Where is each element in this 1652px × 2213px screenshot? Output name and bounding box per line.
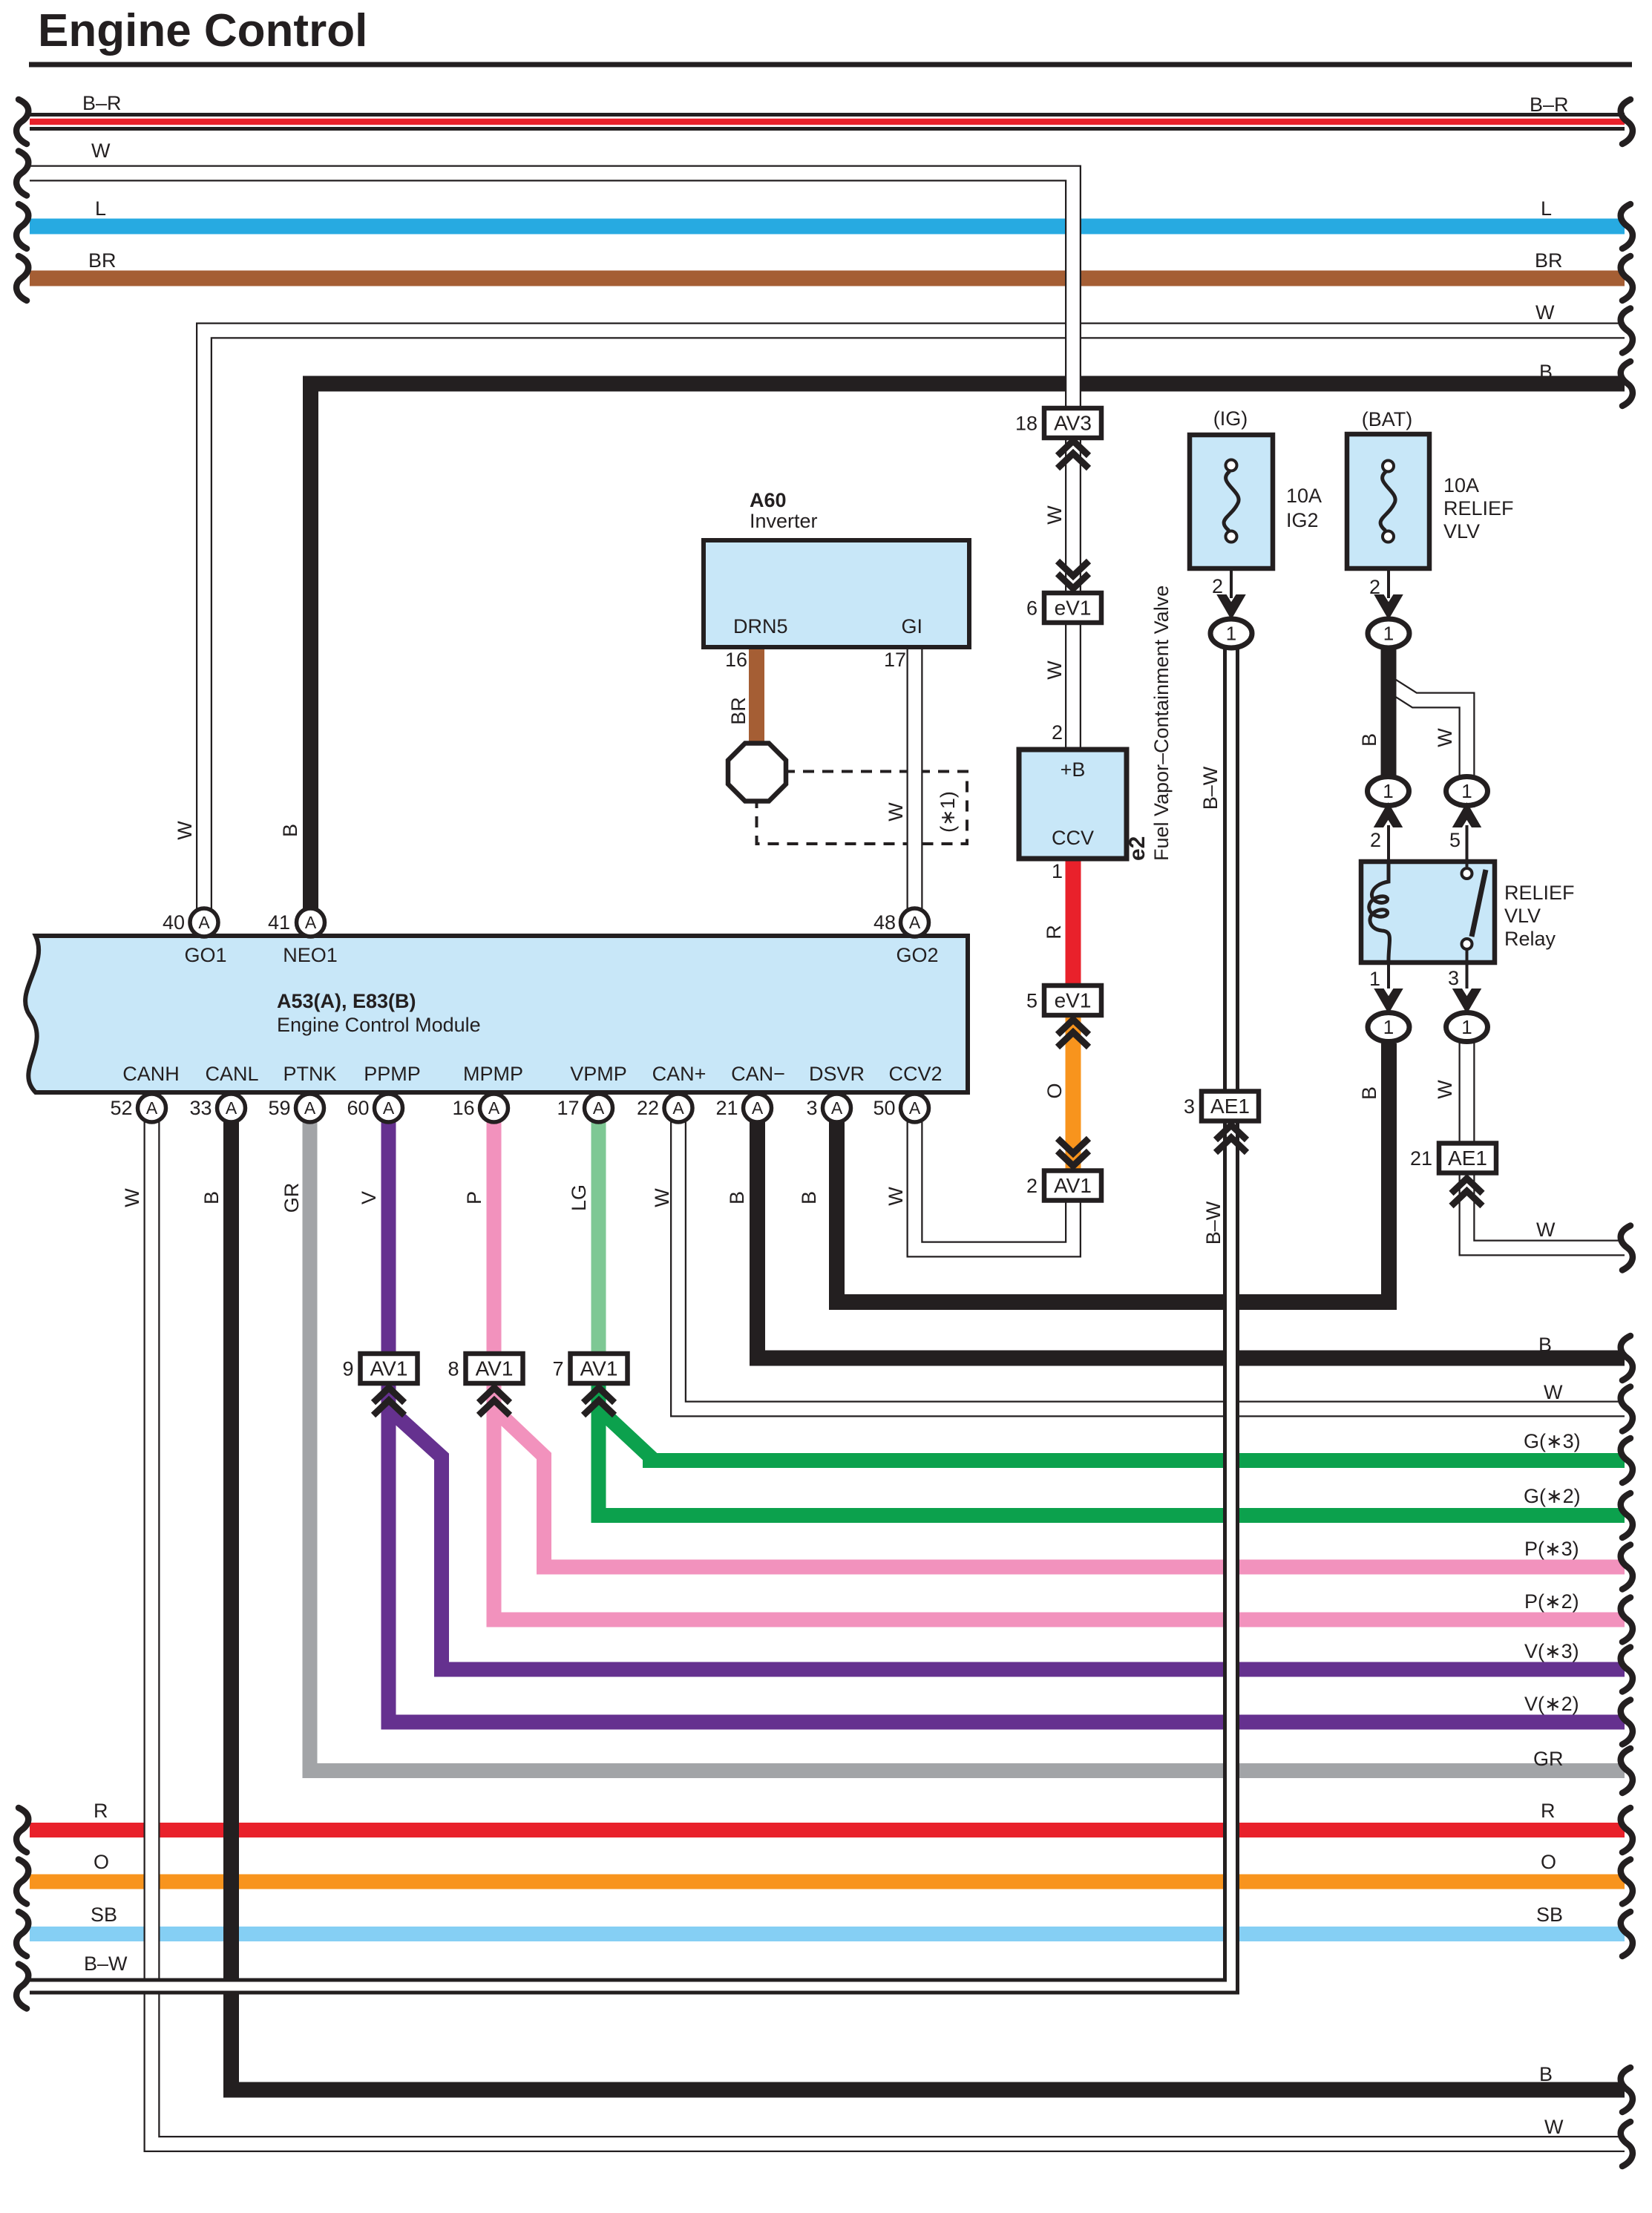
svg-text:8: 8: [448, 1358, 459, 1380]
svg-text:A: A: [909, 913, 921, 932]
svg-text:B–R: B–R: [82, 92, 122, 114]
svg-text:(∗1): (∗1): [937, 791, 959, 833]
terminal arrow fuse RELIEF VLV pin 2: [1375, 595, 1402, 618]
splice 1 on W wire above relay: [1446, 777, 1488, 806]
svg-text:16: 16: [452, 1097, 474, 1119]
break R left: [16, 1808, 28, 1852]
ECM pin 59 connector A: [296, 1094, 324, 1122]
svg-text:B: B: [726, 1191, 748, 1204]
svg-text:GI: GI: [901, 615, 922, 637]
svg-text:VLV: VLV: [1504, 905, 1541, 927]
svg-text:W: W: [174, 821, 196, 840]
svg-text:48: 48: [873, 911, 896, 934]
svg-text:V(∗2): V(∗2): [1524, 1693, 1579, 1715]
break O left: [16, 1860, 28, 1904]
wire B-W fuse IG to connector AE1 3 to bottom left edge: [30, 644, 1231, 1987]
svg-text:B: B: [279, 824, 301, 837]
connector eV1 pin 5: [1026, 986, 1101, 1015]
ECM box A53(A) E83(B) Engine Control Module: [25, 936, 968, 1092]
svg-text:AV1: AV1: [1054, 1174, 1092, 1197]
break V2 right: [1621, 1700, 1633, 1745]
svg-text:G(∗2): G(∗2): [1524, 1485, 1581, 1507]
svg-text:B: B: [798, 1191, 820, 1204]
pigtail relay pin 3: [1466, 960, 1469, 989]
svg-text:W: W: [1434, 728, 1456, 747]
fuse box BAT: [1347, 434, 1429, 568]
inline connector chevrons above AV1 2: [1058, 1138, 1089, 1166]
svg-text:50: 50: [873, 1097, 895, 1119]
inline connector chevrons above eV1 6: [1058, 561, 1089, 589]
ECM pin 16 connector A: [480, 1094, 508, 1122]
break W left: [16, 151, 28, 196]
svg-text:CAN+: CAN+: [652, 1063, 707, 1085]
break SB right: [1621, 1912, 1633, 1956]
svg-text:P(∗3): P(∗3): [1524, 1538, 1579, 1560]
svg-text:10A: 10A: [1443, 474, 1479, 496]
svg-text:GO1: GO1: [184, 944, 226, 966]
inline connector chevrons below AE1 3: [1216, 1125, 1247, 1153]
svg-text:A60: A60: [750, 489, 787, 511]
svg-text:B–W: B–W: [1199, 766, 1222, 810]
svg-text:V: V: [358, 1191, 380, 1204]
svg-text:B: B: [1539, 2063, 1553, 2085]
svg-text:PTNK: PTNK: [283, 1063, 336, 1085]
svg-text:3: 3: [1448, 967, 1459, 989]
svg-text:A: A: [198, 913, 210, 932]
break P2 right: [1621, 1598, 1633, 1642]
fuse box IG: [1190, 435, 1273, 568]
CCV valve box e2: [1019, 750, 1127, 859]
connector eV1 pin 6: [1026, 593, 1101, 623]
svg-text:DRN5: DRN5: [733, 615, 788, 637]
svg-text:A: A: [305, 913, 317, 932]
svg-text:1: 1: [1461, 1016, 1472, 1038]
ECM pin 41 connector A: [297, 908, 325, 937]
wire W ECM pin 52 CANH to bottom right edge: [152, 1121, 1625, 2144]
wire LG ECM pin 17 VPMP to connector AV1 pin 7: [591, 1121, 606, 1356]
connector AV3 pin 18: [1015, 408, 1101, 438]
svg-text:A: A: [831, 1098, 843, 1118]
svg-text:21: 21: [1410, 1147, 1432, 1170]
svg-text:O: O: [1043, 1083, 1066, 1098]
ECM pin 50 connector A: [901, 1094, 929, 1122]
relay switch: [1462, 864, 1487, 960]
wire BR inverter DRN5 pin 16 to shield octagon: [749, 646, 764, 745]
svg-text:A: A: [672, 1098, 684, 1118]
svg-text:O: O: [1541, 1851, 1556, 1873]
svg-text:A: A: [488, 1098, 500, 1118]
wire V ECM pin 60 PPMP straight branch to V(*2): [389, 1121, 1625, 1722]
break B-R right: [1621, 99, 1633, 144]
break B right bottom: [1621, 2068, 1633, 2112]
wire B fuse RELIEF VLV to relay pin 1 coil: [1381, 646, 1397, 807]
inline connector chevrons below AV1 8: [479, 1388, 510, 1415]
svg-text:Fuel Vapor–Containment Valve: Fuel Vapor–Containment Valve: [1150, 586, 1173, 861]
svg-text:B: B: [1538, 1334, 1552, 1356]
svg-text:MPMP: MPMP: [463, 1063, 523, 1085]
break B-R left: [16, 99, 28, 144]
splice 1 below fuse IG: [1210, 619, 1252, 648]
splice 1 on B wire above relay: [1368, 777, 1409, 806]
dashed shield box (*1): [757, 772, 968, 845]
wire V PPMP diagonal branch to V(*3): [389, 1409, 1625, 1670]
splice 1 below relay pin 3: [1446, 1013, 1488, 1042]
svg-text:AV1: AV1: [370, 1357, 408, 1380]
svg-text:W: W: [1535, 301, 1555, 324]
wire O horizontal bus bottom: [30, 1875, 1625, 1889]
svg-text:Engine Control Module: Engine Control Module: [277, 1014, 481, 1036]
break G3 right: [1621, 1438, 1633, 1483]
wire P MPMP diagonal branch to P(*3): [494, 1409, 1625, 1567]
svg-text:AE1: AE1: [1448, 1147, 1487, 1170]
wire L horizontal bus: [30, 219, 1625, 235]
svg-text:40: 40: [163, 911, 185, 934]
wire R horizontal bus bottom: [30, 1823, 1625, 1837]
ECM pin 48 connector A: [901, 908, 929, 937]
svg-text:AV1: AV1: [476, 1357, 514, 1380]
svg-text:P(∗2): P(∗2): [1524, 1590, 1579, 1613]
terminal arrow fuse IG pin 2: [1218, 595, 1245, 618]
svg-text:eV1: eV1: [1055, 597, 1092, 620]
svg-text:NEO1: NEO1: [283, 944, 338, 966]
svg-text:VLV: VLV: [1443, 520, 1480, 542]
fuse IG element: [1224, 460, 1239, 542]
connector AE1 pin 21: [1410, 1144, 1496, 1173]
terminal arrow relay switch pin 5: [1454, 804, 1481, 827]
svg-text:W: W: [121, 1188, 143, 1207]
svg-text:A53(A), E83(B): A53(A), E83(B): [277, 990, 416, 1012]
svg-text:V(∗3): V(∗3): [1524, 1640, 1579, 1662]
svg-text:LG: LG: [568, 1184, 590, 1211]
svg-text:2: 2: [1370, 829, 1381, 851]
svg-text:17: 17: [557, 1097, 579, 1119]
wire W relay pin 3 to connector AE1 21 and right edge: [1467, 1040, 1625, 1248]
svg-text:21: 21: [715, 1097, 738, 1119]
fuse RELIEF VLV element: [1380, 461, 1395, 542]
relay coil: [1369, 864, 1390, 960]
terminal arrow relay pin 3: [1454, 989, 1481, 1012]
inverter box A60: [704, 540, 969, 647]
svg-text:BR: BR: [727, 697, 750, 725]
svg-text:Inverter: Inverter: [750, 510, 818, 532]
svg-text:33: 33: [189, 1097, 212, 1119]
pigtail relay pin 1: [1387, 960, 1390, 989]
svg-text:CANL: CANL: [205, 1063, 258, 1085]
svg-text:22: 22: [637, 1097, 659, 1119]
svg-text:SB: SB: [1536, 1904, 1563, 1926]
wire SB horizontal bus bottom: [30, 1927, 1625, 1941]
svg-text:PPMP: PPMP: [364, 1063, 421, 1085]
break W right CAN+: [1621, 1387, 1633, 1432]
svg-text:W: W: [1043, 505, 1066, 525]
wire O connector eV1 pin 5 to connector AV1 pin 2: [1066, 1012, 1081, 1175]
svg-text:BR: BR: [1535, 249, 1563, 272]
svg-text:+B: +B: [1061, 758, 1086, 781]
wire W left edge to connector AV3 and CCV valve: [30, 174, 1073, 749]
svg-text:1: 1: [1383, 1016, 1394, 1038]
svg-text:59: 59: [268, 1097, 290, 1119]
svg-text:B: B: [1358, 1086, 1380, 1100]
svg-text:2: 2: [1052, 721, 1063, 744]
wire B ECM pin 33 CANL to bottom right edge: [232, 1121, 1625, 2090]
svg-text:B–R: B–R: [1530, 94, 1569, 116]
inline connector chevrons below eV1 5: [1058, 1020, 1089, 1047]
wire B from ECM pin 41 NEO1 to right edge: [311, 384, 1625, 910]
svg-text:A: A: [593, 1098, 605, 1118]
svg-text:RELIEF: RELIEF: [1443, 497, 1514, 519]
svg-text:VPMP: VPMP: [570, 1063, 627, 1085]
svg-text:5: 5: [1026, 990, 1038, 1012]
svg-text:60: 60: [347, 1097, 369, 1119]
svg-text:W: W: [1434, 1080, 1456, 1099]
svg-text:1: 1: [1461, 780, 1472, 802]
svg-text:AV3: AV3: [1054, 412, 1092, 435]
svg-text:10A: 10A: [1286, 485, 1322, 507]
svg-text:5: 5: [1449, 829, 1461, 851]
break O right: [1621, 1860, 1633, 1904]
svg-text:B–W: B–W: [1202, 1201, 1225, 1245]
ECM pin 40 connector A: [190, 908, 218, 937]
svg-text:AV1: AV1: [580, 1357, 618, 1380]
ECM pin 22 connector A: [664, 1094, 692, 1122]
svg-text:SB: SB: [91, 1904, 117, 1926]
pigtail fuse RELIEF VLV pin 2: [1387, 542, 1390, 598]
break B right: [1621, 361, 1633, 406]
wire W inverter GI pin 17 to ECM pin 48 GO2: [907, 646, 923, 910]
wire B-R horizontal bus: [30, 113, 1625, 131]
svg-text:2: 2: [1369, 576, 1380, 598]
break B right CAN-: [1621, 1336, 1633, 1380]
svg-text:41: 41: [268, 911, 290, 934]
ECM pin 21 connector A: [744, 1094, 772, 1122]
svg-text:1: 1: [1052, 860, 1063, 882]
svg-text:CANH: CANH: [122, 1063, 180, 1085]
wire G AV1 pin 7 diagonal branch to G(*3): [599, 1409, 1625, 1460]
svg-text:3: 3: [806, 1097, 817, 1119]
break L right: [1621, 204, 1633, 249]
wire GR ECM pin 59 PTNK to right edge: [310, 1121, 1625, 1771]
svg-text:eV1: eV1: [1055, 989, 1092, 1012]
break BR right: [1621, 256, 1633, 301]
svg-text:A: A: [304, 1098, 316, 1118]
svg-text:W: W: [1544, 1381, 1563, 1403]
svg-text:B: B: [200, 1191, 223, 1204]
svg-text:L: L: [1541, 197, 1552, 220]
break BR left: [16, 256, 28, 301]
svg-text:R: R: [1541, 1800, 1556, 1822]
svg-text:B: B: [1539, 361, 1553, 383]
svg-text:G(∗3): G(∗3): [1524, 1430, 1581, 1452]
inline connector chevrons below AE1 21: [1452, 1178, 1483, 1206]
svg-text:GR: GR: [281, 1183, 303, 1213]
svg-text:P: P: [463, 1191, 485, 1204]
break V3 right: [1621, 1648, 1633, 1692]
svg-text:3: 3: [1184, 1095, 1195, 1118]
svg-text:AE1: AE1: [1210, 1095, 1250, 1118]
svg-text:W: W: [91, 140, 111, 162]
svg-text:A: A: [752, 1098, 764, 1118]
svg-text:CAN−: CAN−: [731, 1063, 785, 1085]
terminal arrow relay pin 1: [1375, 989, 1402, 1012]
break W right: [1621, 309, 1633, 353]
wire BR horizontal bus: [30, 271, 1625, 286]
relay box RELIEF VLV: [1361, 862, 1495, 963]
break B-W left: [16, 1964, 28, 2009]
connector AV1 pin 8: [448, 1354, 522, 1383]
svg-text:17: 17: [884, 649, 906, 671]
svg-text:GR: GR: [1533, 1748, 1564, 1770]
wire G AV1 pin 7 straight branch to G(*2): [599, 1381, 1625, 1515]
ECM pin 33 connector A: [217, 1094, 246, 1122]
splice 1 below fuse RELIEF VLV: [1368, 619, 1409, 648]
svg-text:W: W: [1536, 1219, 1556, 1241]
ECM pin 52 connector A: [138, 1094, 166, 1122]
wire R CCV pin 1 to connector eV1 pin 5: [1066, 857, 1081, 989]
title underline: [29, 62, 1632, 68]
break W right AE1: [1621, 1226, 1633, 1271]
svg-text:16: 16: [725, 649, 747, 671]
svg-text:B–W: B–W: [84, 1953, 128, 1975]
svg-text:2: 2: [1212, 575, 1223, 597]
svg-text:1: 1: [1369, 968, 1380, 990]
wire B ECM pin 21 CAN- to right edge: [758, 1121, 1625, 1358]
connector AE1 pin 3: [1184, 1092, 1259, 1121]
svg-text:W: W: [1043, 660, 1066, 680]
svg-text:52: 52: [110, 1097, 132, 1119]
connector AV1 pin 9: [342, 1354, 417, 1383]
terminal arrow relay coil pin 2: [1375, 804, 1402, 827]
wire W branch from fuse RELIEF VLV to relay pin 5: [1387, 683, 1467, 807]
wire W ECM pin 22 CAN+ to right edge: [678, 1121, 1625, 1409]
break R right: [1621, 1808, 1633, 1852]
svg-text:R: R: [94, 1800, 108, 1822]
wire P ECM pin 16 MPMP straight branch to P(*2): [494, 1121, 1625, 1620]
svg-text:9: 9: [342, 1358, 353, 1380]
wire W from ECM pin 40 GO1 to right edge: [204, 331, 1625, 911]
svg-text:6: 6: [1026, 597, 1038, 620]
svg-text:(BAT): (BAT): [1362, 408, 1413, 430]
inline connector chevrons below AV1 7: [583, 1388, 614, 1415]
break G2 right: [1621, 1493, 1633, 1538]
break GR right: [1621, 1748, 1633, 1793]
svg-text:A: A: [226, 1098, 237, 1118]
svg-text:IG2: IG2: [1286, 509, 1319, 531]
ECM pin 3 connector A: [823, 1094, 851, 1122]
svg-text:L: L: [95, 197, 106, 220]
svg-text:(IG): (IG): [1213, 407, 1248, 430]
inline connector chevrons below AV1 9: [373, 1388, 404, 1415]
svg-text:CCV: CCV: [1052, 827, 1094, 849]
svg-text:B: B: [1358, 733, 1380, 747]
svg-text:A: A: [383, 1098, 395, 1118]
svg-text:W: W: [885, 1187, 907, 1206]
svg-text:e2: e2: [1125, 836, 1150, 861]
connector AV1 pin 2: [1026, 1171, 1101, 1201]
break L left: [16, 204, 28, 249]
svg-text:GO2: GO2: [896, 944, 938, 966]
inline connector chevrons below AV3: [1058, 441, 1089, 468]
svg-text:O: O: [94, 1851, 109, 1873]
svg-text:A: A: [909, 1098, 921, 1118]
break P3 right: [1621, 1545, 1633, 1590]
break SB left: [16, 1912, 28, 1956]
wire W ECM pin 50 CCV2 to connector AV1 pin 2: [915, 1121, 1074, 1250]
svg-text:Relay: Relay: [1504, 928, 1556, 950]
connector AV1 pin 7: [552, 1354, 627, 1383]
pigtail relay switch pin 5: [1466, 825, 1469, 864]
svg-text:2: 2: [1026, 1175, 1038, 1197]
svg-text:7: 7: [552, 1358, 563, 1380]
svg-text:Engine Control: Engine Control: [38, 5, 367, 56]
svg-text:R: R: [1043, 925, 1065, 940]
svg-text:DSVR: DSVR: [809, 1063, 865, 1085]
splice 1 below relay pin 1: [1368, 1013, 1409, 1042]
pigtail relay coil pin 2: [1387, 825, 1390, 864]
ECM pin 17 connector A: [585, 1094, 613, 1122]
break W right bottom: [1621, 2122, 1633, 2166]
svg-text:1: 1: [1226, 623, 1236, 645]
pigtail fuse IG pin 2: [1230, 542, 1233, 598]
shield ground octagon: [728, 744, 786, 801]
svg-text:BR: BR: [88, 249, 117, 272]
svg-text:W: W: [885, 802, 907, 822]
svg-text:A: A: [146, 1098, 158, 1118]
svg-text:W: W: [651, 1188, 673, 1207]
svg-text:CCV2: CCV2: [888, 1063, 942, 1085]
svg-text:1: 1: [1383, 780, 1393, 802]
svg-text:W: W: [1544, 2116, 1564, 2138]
wire B ECM pin 3 DSVR to RELIEF VLV relay pin 1: [837, 1043, 1389, 1302]
svg-text:1: 1: [1383, 623, 1394, 645]
ECM pin 60 connector A: [375, 1094, 403, 1122]
svg-text:18: 18: [1015, 413, 1038, 435]
svg-text:RELIEF: RELIEF: [1504, 882, 1575, 904]
